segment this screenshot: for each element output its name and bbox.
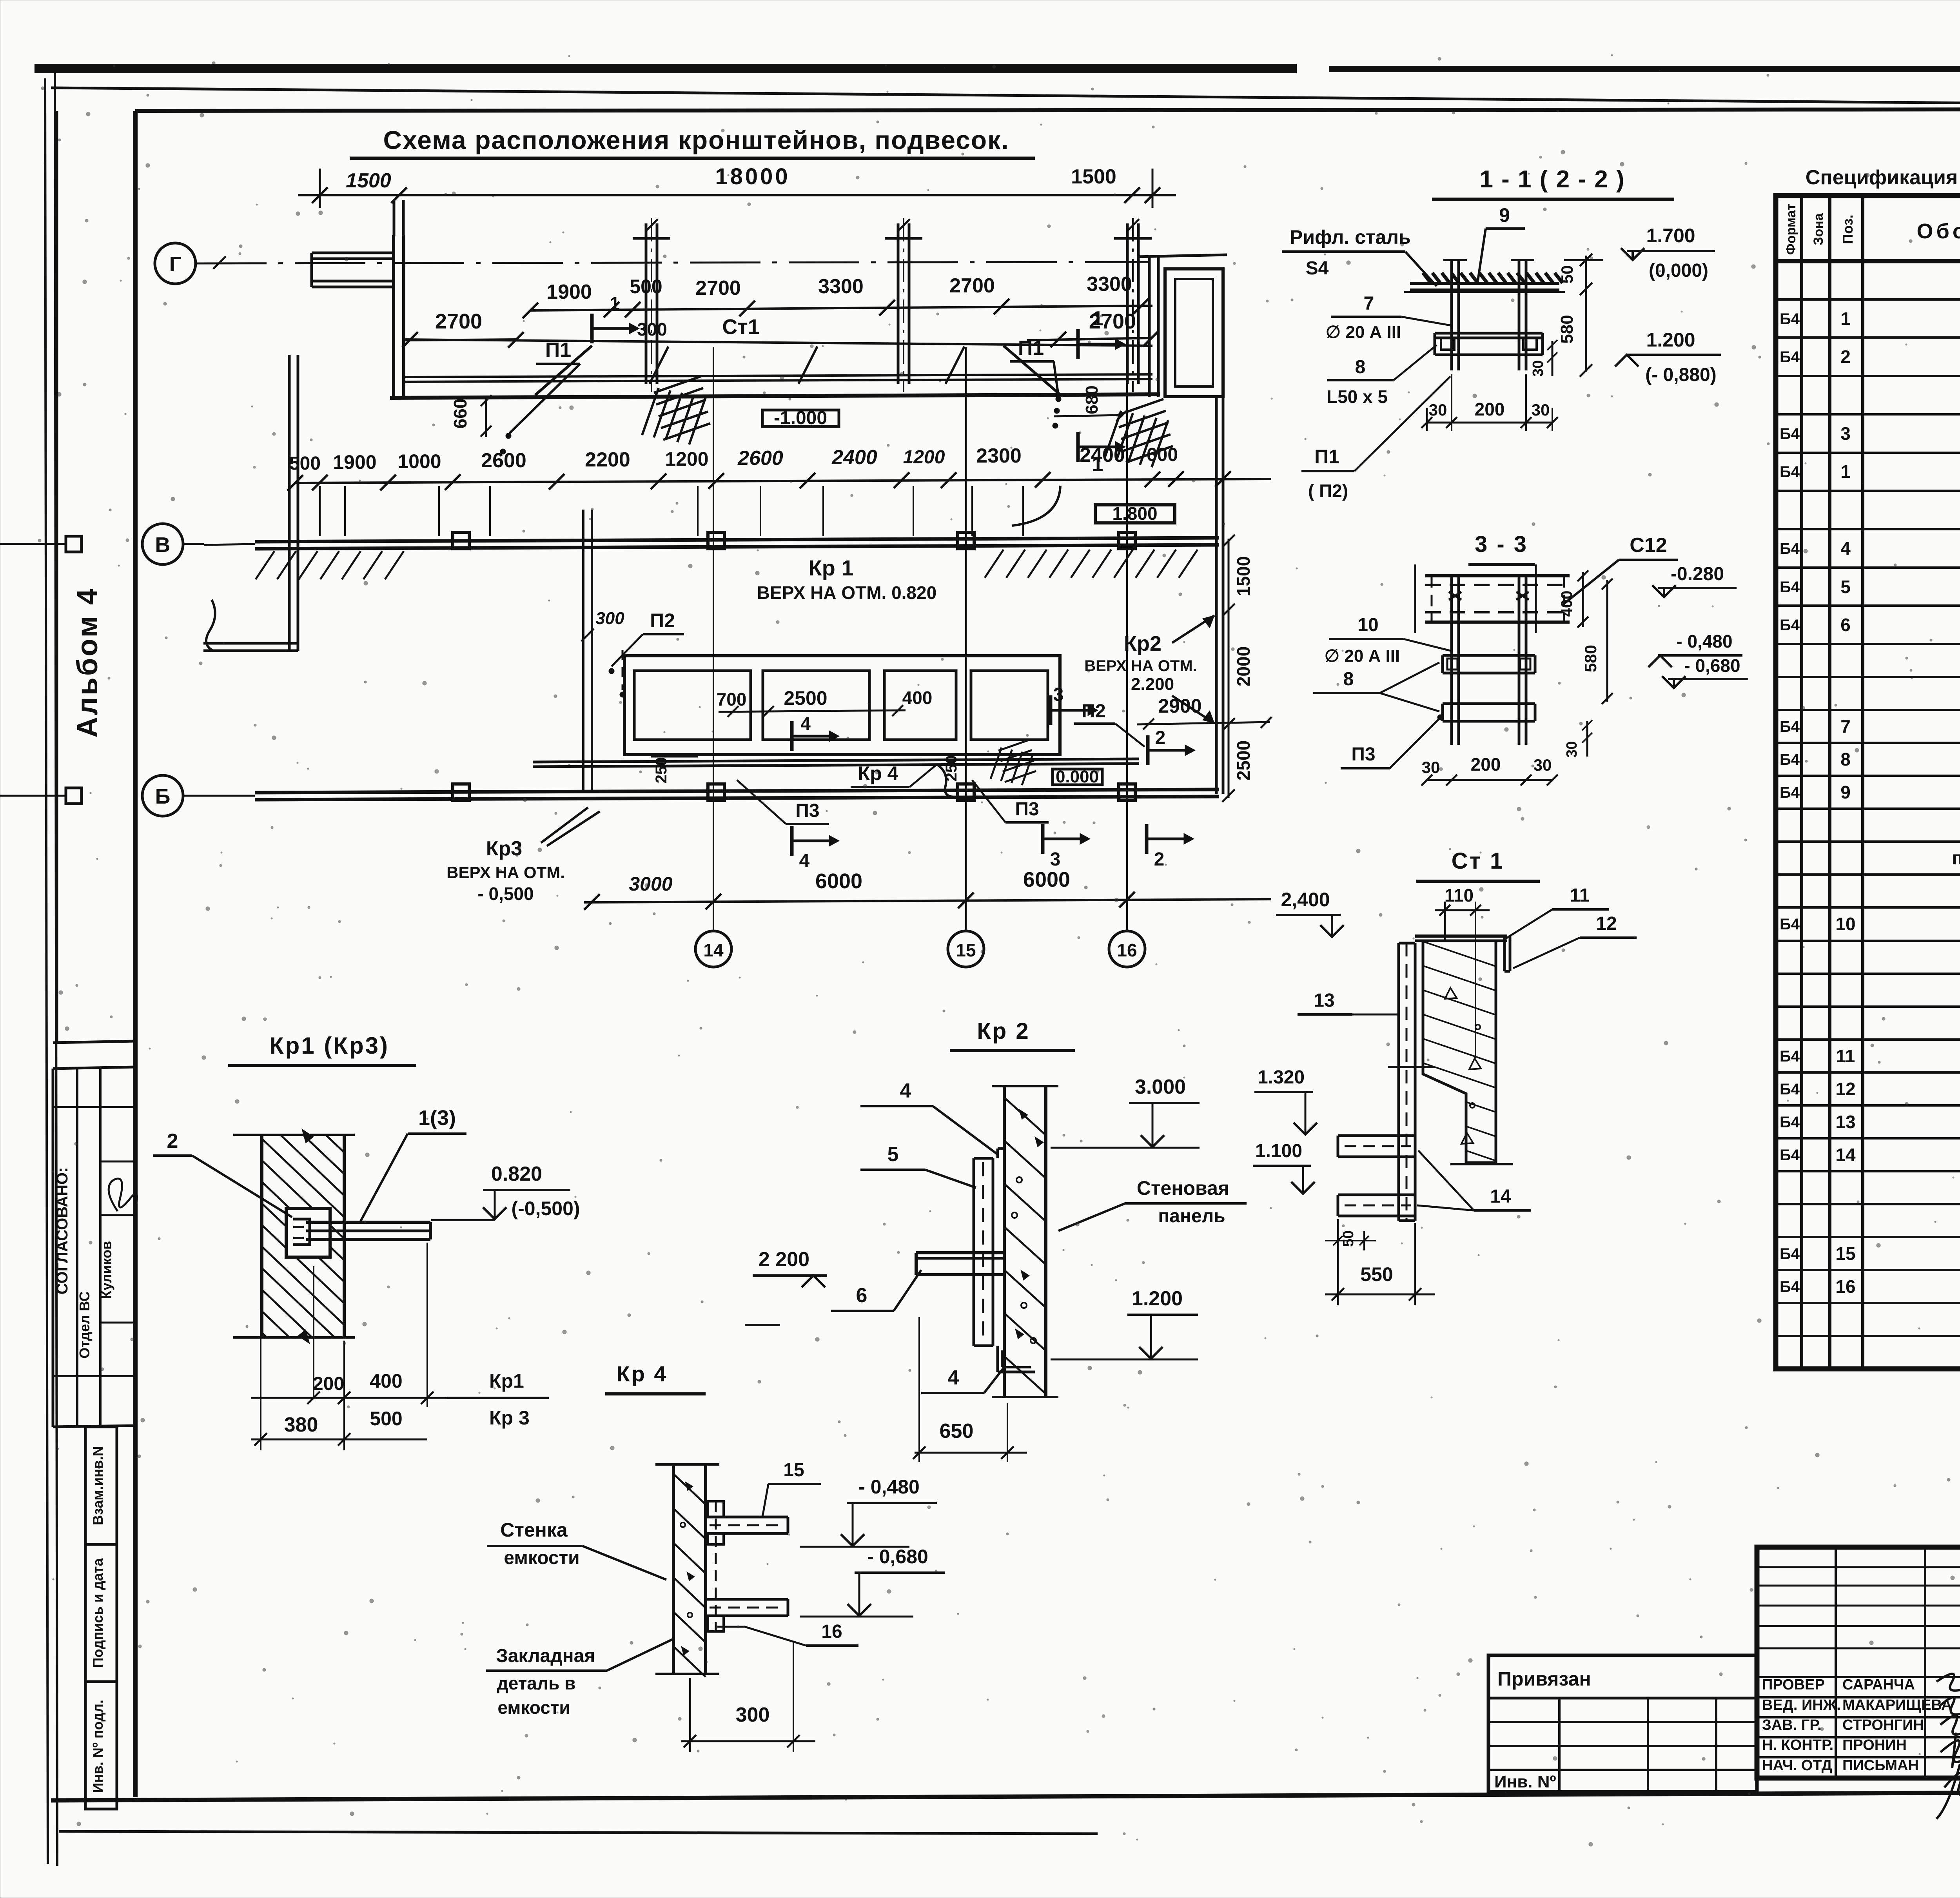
Kp4 rail under tank	[533, 759, 1139, 797]
svg-text:2: 2	[1154, 849, 1165, 870]
svg-text:П3: П3	[1351, 744, 1375, 765]
svg-text:МАКАРИЩЕВА: МАКАРИЩЕВА	[1842, 1697, 1952, 1713]
svg-text:30: 30	[1564, 741, 1580, 758]
inv n podl box	[85, 1682, 117, 1809]
svg-text:Куликов: Куликов	[98, 1241, 114, 1299]
svg-text:400: 400	[1558, 591, 1575, 617]
svg-text:7: 7	[1364, 293, 1374, 314]
svg-text:Рифл. сталь: Рифл. сталь	[1290, 226, 1411, 248]
svg-text:2400: 2400	[1080, 444, 1125, 466]
svg-text:9: 9	[1499, 204, 1510, 226]
svg-text:ПРОНИН: ПРОНИН	[1842, 1737, 1907, 1753]
label 9 leader	[1478, 204, 1525, 281]
svg-text:110: 110	[1445, 885, 1474, 905]
svg-text:30: 30	[1532, 401, 1550, 419]
svg-text:4: 4	[800, 713, 811, 734]
angle bar section 1-1	[1435, 333, 1543, 355]
row 29 item	[1776, 1269, 1960, 1271]
svg-text:Б4: Б4	[1780, 463, 1800, 481]
grid circles 14 15 16	[695, 347, 1145, 967]
svg-text:Формат: Формат	[1784, 204, 1798, 255]
St1 top cap angle	[1415, 936, 1510, 971]
row 10 item	[1776, 643, 1960, 645]
svg-text:550: 550	[1360, 1263, 1393, 1285]
main title	[350, 125, 1035, 158]
right wall nested rect	[1137, 255, 1227, 397]
svg-text:Н. КОНТР.: Н. КОНТР.	[1762, 1737, 1833, 1753]
axis B band	[0, 775, 1219, 816]
Kp4 title	[605, 1361, 706, 1394]
svg-text:3: 3	[1050, 849, 1061, 870]
svg-text:ПРОВЕР: ПРОВЕР	[1762, 1677, 1825, 1693]
vzam inv box	[85, 1427, 117, 1544]
svg-text:Б4: Б4	[1780, 1147, 1800, 1164]
svg-text:2: 2	[167, 1130, 178, 1152]
svg-text:Б4: Б4	[1780, 310, 1800, 328]
svg-text:Закладная: Закладная	[496, 1646, 595, 1666]
svg-text:Обозначение: Обозначение	[1916, 220, 1960, 243]
St1 left plate channel 13	[1388, 943, 1435, 1221]
svg-text:- 0,480: - 0,480	[1676, 631, 1732, 651]
Kp4 dim 300	[681, 1642, 815, 1752]
dim 680 rot right	[1054, 385, 1127, 421]
svg-text:П3: П3	[795, 800, 819, 821]
svg-text:2900: 2900	[1158, 695, 1201, 717]
svg-text:1500: 1500	[346, 169, 391, 192]
svg-text:Кр1 (Кр3): Кр1 (Кр3)	[269, 1032, 389, 1059]
svg-text:4: 4	[799, 851, 810, 871]
svg-text:500: 500	[289, 453, 321, 474]
label Kp2 with arrows	[1084, 615, 1214, 723]
svg-text:300: 300	[595, 609, 624, 628]
level 1.200 (-0,880)	[1615, 329, 1721, 385]
label 8 L50x5	[1327, 345, 1437, 407]
svg-text:Б4: Б4	[1780, 348, 1800, 366]
label 13	[1298, 990, 1399, 1014]
svg-text:6: 6	[1840, 615, 1851, 635]
svg-text:Стеновая: Стеновая	[1137, 1177, 1229, 1199]
level 0.000 box	[991, 740, 1102, 786]
dim 2700 left	[402, 310, 524, 348]
svg-text:П3: П3	[1015, 799, 1039, 820]
svg-text:0.820: 0.820	[491, 1163, 542, 1185]
label Kp3	[446, 807, 600, 904]
label 10 d20AIII	[1325, 615, 1450, 666]
hanger posts section 1-1	[1443, 260, 1534, 370]
svg-text:Подпись и дата: Подпись и дата	[90, 1558, 106, 1668]
svg-text:Б4: Б4	[1780, 1245, 1800, 1263]
Kp2 bracket plate dashed	[974, 1149, 1035, 1372]
svg-text:Б: Б	[155, 785, 171, 808]
svg-text:650: 650	[940, 1420, 974, 1443]
svg-text:Привязан: Привязан	[1497, 1668, 1591, 1690]
dim 660 rot	[450, 395, 492, 437]
podpis i data box	[85, 1544, 117, 1682]
privyazan table	[1488, 1655, 1757, 1792]
label 16	[717, 1621, 858, 1646]
svg-text:680: 680	[1082, 385, 1102, 414]
svg-text:1.200: 1.200	[1646, 329, 1695, 351]
svg-text:1200: 1200	[665, 448, 708, 470]
section 1-1 title	[1432, 166, 1674, 199]
svg-text:1200: 1200	[903, 447, 945, 468]
svg-text:16: 16	[1117, 940, 1137, 960]
svg-text:∅ 20 А III: ∅ 20 А III	[1325, 646, 1400, 666]
svg-text:2000: 2000	[1233, 646, 1254, 686]
svg-text:1.700: 1.700	[1646, 225, 1695, 247]
level 1.800 box	[1095, 503, 1175, 524]
section flag 3 and P2 right	[1051, 684, 1145, 747]
row 32 blank	[1776, 1368, 1960, 1370]
svg-text:2.200: 2.200	[1131, 675, 1174, 694]
svg-text:деталь в: деталь в	[497, 1673, 576, 1693]
svg-text:Б4: Б4	[1780, 1081, 1800, 1098]
hanger posts 3-3	[1449, 576, 1529, 745]
Kp1 wall hatched	[233, 1074, 355, 1433]
svg-text:8: 8	[1840, 749, 1851, 769]
label C12	[1564, 534, 1678, 604]
svg-text:2500: 2500	[1233, 740, 1254, 780]
label P1 left	[500, 339, 580, 454]
svg-text:500: 500	[370, 1408, 402, 1430]
row 13 plain	[1776, 742, 1960, 744]
svg-text:СТРОНГИН: СТРОНГИН	[1842, 1717, 1924, 1733]
level -0,480 Kp4	[800, 1476, 937, 1547]
row 23 item	[1776, 1071, 1960, 1074]
extension verticals from dim row to axis V	[320, 486, 1023, 536]
svg-text:16: 16	[821, 1621, 842, 1642]
svg-text:400: 400	[370, 1370, 402, 1392]
svg-text:Кр 3: Кр 3	[489, 1407, 530, 1429]
svg-text:13: 13	[1314, 990, 1334, 1011]
svg-text:0.000: 0.000	[1056, 767, 1099, 786]
svg-text:ЗАВ. ГР.: ЗАВ. ГР.	[1762, 1717, 1822, 1733]
svg-text:300: 300	[637, 319, 667, 339]
svg-text:400: 400	[902, 688, 933, 708]
dim 400 rot 3-3	[1558, 570, 1588, 628]
left lower wall	[203, 355, 298, 651]
svg-text:Б4: Б4	[1780, 718, 1800, 735]
svg-text:емкости: емкости	[497, 1697, 570, 1718]
St1 brackets left	[1338, 1136, 1415, 1216]
row 2 item	[1776, 336, 1960, 339]
svg-text:6000: 6000	[1023, 868, 1070, 891]
svg-text:Б4: Б4	[1780, 425, 1800, 443]
svg-text:Стенка: Стенка	[500, 1519, 568, 1541]
Kp1 dims 200 400 500 380	[251, 1243, 463, 1450]
svg-text:50: 50	[1340, 1230, 1357, 1247]
svg-text:(-0,500): (-0,500)	[511, 1198, 580, 1219]
svg-text:2200: 2200	[585, 448, 630, 471]
P3 labels	[737, 780, 1049, 824]
svg-text:300: 300	[736, 1704, 770, 1726]
soglasovano table	[53, 1067, 137, 1427]
svg-text:600: 600	[1147, 445, 1178, 465]
svg-text:Б4: Б4	[1780, 1114, 1800, 1131]
svg-text:Б4: Б4	[1780, 617, 1800, 634]
bottom dims 30 200 30 section 1-1	[1421, 374, 1558, 431]
label 300 with arrow	[592, 293, 667, 343]
svg-text:50: 50	[1558, 265, 1576, 284]
Kp1 embedded plate	[286, 1208, 330, 1257]
svg-text:4: 4	[900, 1080, 911, 1102]
svg-text:2700: 2700	[435, 310, 482, 333]
svg-text:9: 9	[1840, 782, 1851, 802]
svg-text:2: 2	[1840, 347, 1851, 367]
svg-text:( П2): ( П2)	[1308, 481, 1348, 501]
svg-text:1(3): 1(3)	[418, 1106, 456, 1130]
svg-text:30: 30	[1422, 758, 1440, 777]
svg-text:500: 500	[630, 276, 662, 298]
svg-text:200: 200	[313, 1374, 344, 1394]
svg-text:Кр2: Кр2	[1124, 632, 1161, 655]
row 30 item	[1776, 1302, 1960, 1304]
svg-text:- 0,480: - 0,480	[858, 1476, 920, 1498]
svg-text:-1.000: -1.000	[774, 408, 827, 428]
section flag 1 upper right	[1078, 307, 1125, 359]
stamp outer	[1757, 1547, 1960, 1778]
dim 550 St1	[1325, 1223, 1435, 1305]
svg-text:СОГЛАСОВАНО:: СОГЛАСОВАНО:	[54, 1167, 71, 1295]
svg-text:2 200: 2 200	[759, 1248, 809, 1271]
row 25 item	[1776, 1137, 1960, 1140]
svg-text:1.800: 1.800	[1112, 503, 1157, 524]
svg-text:2500: 2500	[784, 687, 827, 709]
svg-text:Инв. Nº подл.: Инв. Nº подл.	[90, 1700, 106, 1793]
svg-text:15: 15	[1835, 1243, 1855, 1264]
dim 2700 right	[1027, 310, 1159, 347]
St1 title	[1416, 848, 1540, 881]
Kp1 Kp3 tail labels	[447, 1370, 549, 1429]
svg-text:14: 14	[1490, 1186, 1511, 1207]
Kp4 bars	[706, 1501, 788, 1631]
svg-text:Б4: Б4	[1780, 540, 1800, 557]
svg-text:580: 580	[1557, 315, 1577, 343]
tank left wall	[394, 235, 404, 397]
svg-text:5: 5	[1840, 577, 1851, 597]
top plate with riffled hatch	[1404, 273, 1565, 292]
Kp2 title	[950, 1018, 1075, 1051]
svg-text:10: 10	[1357, 615, 1378, 635]
lower tank rect with openings	[624, 656, 1060, 755]
dims 50 580 right	[1557, 254, 1603, 377]
label stenovaya panel	[1058, 1177, 1247, 1231]
svg-text:30: 30	[1429, 401, 1447, 419]
svg-text:700: 700	[717, 689, 747, 709]
row 24 item	[1776, 1104, 1960, 1107]
svg-text:1.100: 1.100	[1255, 1141, 1302, 1161]
second dim row	[287, 444, 1271, 491]
row 4 title	[1776, 413, 1960, 416]
dim 50 St1	[1325, 1219, 1376, 1250]
row 28 title	[1776, 1236, 1960, 1238]
svg-text:П1: П1	[545, 339, 571, 361]
spec table outer border	[1776, 196, 1960, 1369]
Kp1 bracket bar	[306, 1222, 430, 1239]
level -1.000 box	[762, 408, 839, 428]
svg-text:3: 3	[1840, 423, 1851, 444]
svg-text:4: 4	[1840, 538, 1851, 559]
svg-text:емкости: емкости	[504, 1548, 579, 1568]
level 0.820 (-0,500)	[431, 1163, 580, 1220]
svg-text:2300: 2300	[976, 445, 1022, 467]
svg-text:1: 1	[1840, 308, 1851, 329]
svg-text:3: 3	[1053, 684, 1064, 705]
svg-text:660: 660	[450, 399, 470, 429]
upper dim row 1900 500 2700 3300 2700 3300	[523, 273, 1152, 318]
axis G line	[155, 243, 1149, 284]
Kp2 wall panel hatched	[992, 1086, 1058, 1397]
row 17 pozn	[1776, 873, 1960, 876]
250 rot labels	[651, 755, 960, 784]
svg-text:11: 11	[1570, 885, 1590, 906]
label 15	[762, 1460, 821, 1517]
level 1.320	[1254, 1067, 1317, 1134]
level -0.280	[1652, 564, 1737, 597]
svg-text:2: 2	[1155, 728, 1166, 748]
svg-text:Б4: Б4	[1780, 916, 1800, 933]
row 21 blank	[1776, 1005, 1960, 1008]
lower tank dims 700 2500 400	[717, 687, 933, 751]
svg-text:Б4: Б4	[1780, 1048, 1800, 1065]
spec table header labels	[1784, 204, 1960, 255]
label 4 lower	[921, 1366, 1004, 1393]
svg-text:Взам.инв.N: Взам.инв.N	[90, 1446, 106, 1525]
row 26 item	[1776, 1170, 1960, 1172]
svg-text:Ст1: Ст1	[722, 315, 759, 339]
svg-text:380: 380	[284, 1414, 318, 1436]
channel 3-3	[1415, 564, 1570, 633]
right vertical dim chain	[1216, 397, 1254, 802]
Kp2 angle bar	[916, 1253, 1004, 1275]
svg-text:3300: 3300	[818, 275, 864, 298]
label stenka emkosti	[487, 1519, 666, 1580]
svg-text:П2: П2	[650, 610, 675, 631]
level 3.000	[1051, 1076, 1200, 1148]
svg-text:- 0,500: - 0,500	[477, 884, 534, 904]
svg-text:1.320: 1.320	[1258, 1067, 1305, 1088]
svg-text:Ст 1: Ст 1	[1452, 848, 1504, 874]
svg-text:1900: 1900	[546, 281, 592, 303]
svg-text:Б4: Б4	[1780, 1278, 1800, 1296]
svg-text:5: 5	[887, 1143, 899, 1166]
row 12 title	[1776, 709, 1960, 711]
svg-text:2,400: 2,400	[1281, 889, 1330, 911]
row 18 title	[1776, 906, 1960, 909]
stamp left grid	[1757, 1547, 1960, 1778]
svg-text:3.000: 3.000	[1135, 1076, 1186, 1098]
svg-text:2400: 2400	[831, 446, 877, 469]
svg-text:Кр 4: Кр 4	[616, 1361, 668, 1386]
svg-text:2600: 2600	[481, 449, 526, 472]
svg-text:Б4: Б4	[1780, 784, 1800, 801]
svg-text:S4: S4	[1306, 258, 1329, 279]
row 15 item	[1776, 807, 1960, 810]
label 7 d20AIII	[1326, 293, 1450, 342]
row 20 pozn	[1776, 973, 1960, 975]
level 2.200 left	[745, 1248, 827, 1325]
svg-text:200: 200	[1475, 399, 1505, 419]
row 16 title	[1776, 840, 1960, 843]
row 27 blank	[1776, 1203, 1960, 1205]
level 2.400 St1	[1276, 889, 1344, 937]
left outer border lines	[45, 71, 57, 1866]
section 3-3 title	[1468, 532, 1535, 564]
svg-text:11: 11	[1836, 1046, 1855, 1066]
svg-text:П1: П1	[1314, 446, 1339, 468]
svg-text:2700: 2700	[949, 274, 995, 297]
svg-text:8: 8	[1343, 669, 1354, 690]
svg-text:3000: 3000	[629, 873, 672, 895]
upper wall posts	[394, 200, 1152, 392]
row 19 plain	[1776, 940, 1960, 942]
dim 2900	[1137, 695, 1272, 765]
label 6	[831, 1270, 921, 1311]
svg-text:∅ 20 А III: ∅ 20 А III	[1326, 323, 1401, 342]
hatch patch right	[1105, 399, 1173, 467]
label 2	[153, 1130, 292, 1217]
svg-text:- 0,680: - 0,680	[1684, 655, 1740, 676]
dim 30 rot 3-3	[1564, 720, 1592, 758]
row 1 title	[1776, 298, 1960, 301]
svg-text:14: 14	[1835, 1145, 1856, 1165]
svg-text:1 - 1 ( 2 - 2 ): 1 - 1 ( 2 - 2 )	[1479, 166, 1625, 193]
svg-text:1500: 1500	[1071, 165, 1116, 188]
P2 post	[581, 510, 684, 792]
angle bars 3-3	[1443, 655, 1535, 721]
svg-text:2700: 2700	[695, 277, 741, 299]
svg-text:13: 13	[1835, 1112, 1855, 1132]
label P3 section 3-3	[1341, 715, 1443, 768]
row 8 item	[1776, 566, 1960, 569]
svg-text:- 0,680: - 0,680	[867, 1546, 928, 1568]
svg-text:ВЕРХ НА ОТМ.: ВЕРХ НА ОТМ.	[446, 863, 565, 882]
svg-text:1000: 1000	[397, 450, 441, 472]
label 4 upper	[860, 1080, 998, 1154]
dim 110 St1	[1435, 885, 1490, 1058]
svg-text:НАЧ. ОТД: НАЧ. ОТД	[1762, 1757, 1832, 1774]
svg-text:2600: 2600	[737, 447, 783, 470]
svg-text:Инв. Nº: Инв. Nº	[1494, 1772, 1556, 1791]
svg-text:САРАНЧА: САРАНЧА	[1842, 1677, 1915, 1693]
label 1(3)	[361, 1106, 466, 1221]
row 14 item	[1776, 775, 1960, 777]
svg-text:6: 6	[856, 1284, 867, 1307]
Kp1 Kp3 title	[228, 1032, 416, 1065]
row 7 title	[1776, 528, 1960, 530]
svg-text:Отдел ВС: Отдел ВС	[76, 1291, 93, 1359]
svg-text:1: 1	[1092, 307, 1103, 330]
level 1.100	[1253, 1141, 1315, 1194]
row 31 blank	[1776, 1335, 1960, 1337]
svg-text:3 - 3: 3 - 3	[1475, 532, 1528, 557]
label P1 (P2)	[1301, 376, 1450, 501]
svg-text:14: 14	[703, 940, 724, 960]
svg-text:15: 15	[956, 940, 976, 960]
axis V band with brackets Kp1	[204, 532, 1219, 579]
svg-text:8: 8	[1355, 357, 1366, 377]
dim 580 rot 3-3	[1581, 579, 1613, 704]
svg-text:6000: 6000	[815, 869, 862, 893]
svg-text:Кр 1: Кр 1	[808, 555, 853, 580]
svg-text:1: 1	[1840, 461, 1851, 482]
Kp2 dim 650	[913, 1317, 1027, 1462]
bottom dims 3000 6000 6000	[584, 868, 1271, 910]
tank inner top edge	[404, 339, 1152, 346]
label 14	[1417, 1150, 1531, 1210]
Kp4 wall hatched	[655, 1464, 719, 1677]
svg-text:L50 x 5: L50 x 5	[1327, 386, 1388, 407]
